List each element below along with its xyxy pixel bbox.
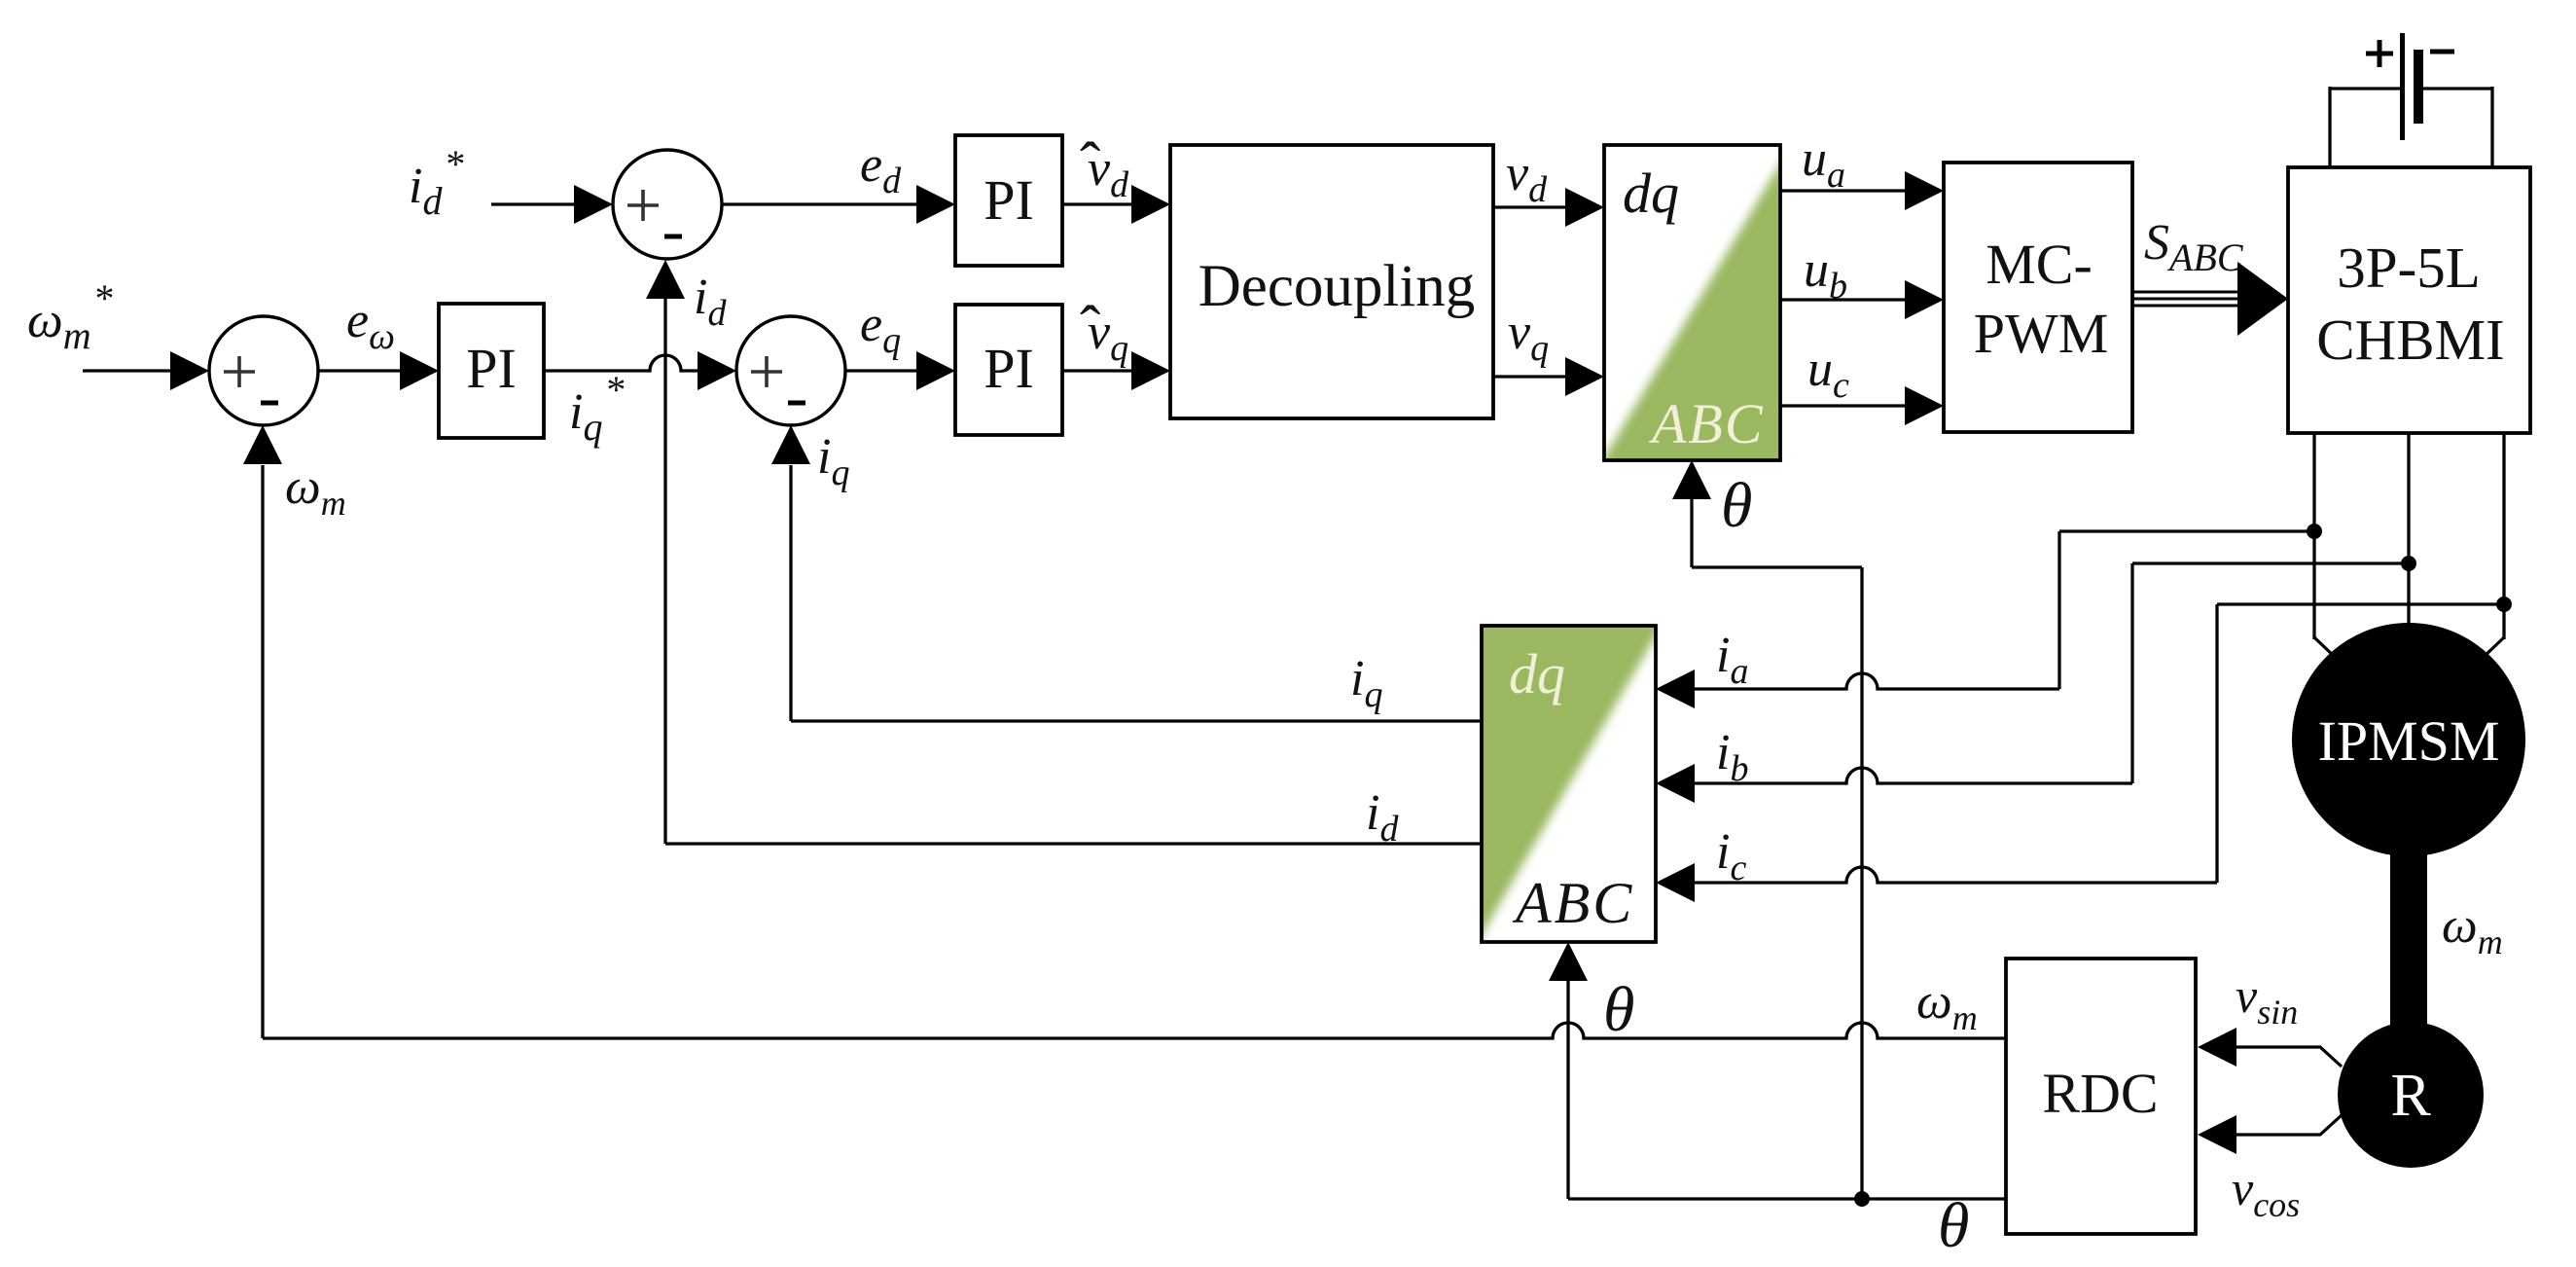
svg-text:PI: PI	[984, 168, 1034, 232]
wire i_d feedback vertical	[663, 299, 666, 844]
tap wire i_c vertical	[2215, 604, 2218, 883]
junction dot phase c tap	[2496, 597, 2512, 612]
arrowhead i_c	[1656, 863, 1695, 902]
svg-text:dq: dq	[1509, 642, 1565, 706]
svg-text:PWM: PWM	[1974, 302, 2109, 365]
svg-text:dq: dq	[1623, 162, 1679, 225]
wire i_q feedback vertical	[789, 465, 792, 721]
wire v_cos	[2236, 1115, 2342, 1135]
arrowhead v_d_hat	[1131, 185, 1170, 224]
svg-text:θ: θ	[1721, 470, 1752, 541]
phase line c vertical	[2502, 433, 2505, 639]
theta arrow into block 1	[1690, 499, 1693, 567]
arrowhead i_d* input	[574, 185, 613, 224]
wire v_q_hat	[1062, 369, 1133, 372]
summing junction speed error	[209, 316, 318, 425]
wire i_d feedback horizontal	[665, 842, 1482, 845]
green triangle dq/ABC block 2	[1472, 621, 1664, 952]
arrowhead u_c	[1905, 386, 1944, 425]
arrowhead e_q	[916, 351, 955, 390]
battery minus sign	[2430, 50, 2454, 54]
motor IPMSM	[2292, 623, 2525, 856]
tap wire i_a horizontal	[2059, 529, 2314, 532]
junction dot theta	[1854, 1191, 1870, 1207]
arrowhead v_sin	[2198, 1028, 2236, 1067]
phase line a vertical	[2312, 433, 2315, 639]
arrowhead i_q into q summing junction	[771, 425, 810, 464]
wire e_q	[845, 369, 918, 372]
svg-text:PI: PI	[984, 337, 1034, 400]
svg-text:3P-5L: 3P-5L	[2337, 235, 2481, 300]
block RDC	[2006, 959, 2196, 1234]
battery wire right	[2423, 87, 2492, 90]
tap wire i_b vertical	[2130, 563, 2133, 783]
wire i_c	[1695, 867, 2217, 883]
wire i_q feedback horizontal	[791, 719, 1482, 722]
svg-text:CHBMI: CHBMI	[2316, 308, 2504, 372]
arrowhead v_cos	[2198, 1115, 2236, 1154]
wire v_d	[1493, 205, 1567, 208]
arrowhead u_b	[1905, 280, 1944, 319]
wire i_q* with hop over i_d feedback	[544, 355, 698, 371]
arrowhead e_omega	[400, 351, 439, 390]
phase line b vertical	[2407, 433, 2410, 633]
block PI d-axis current controller	[955, 135, 1062, 266]
S_ABC triple line bus	[2132, 291, 2237, 294]
arrowhead v_d	[1565, 188, 1604, 227]
svg-text:ABC: ABC	[1648, 392, 1765, 455]
svg-text:PI: PI	[466, 337, 517, 400]
tap wire i_c horizontal	[2217, 602, 2504, 605]
block 3P-5L CHBMI	[2288, 167, 2530, 433]
svg-text:RDC: RDC	[2042, 1062, 2158, 1125]
wire e_omega	[318, 369, 402, 372]
block ABC to dq current transform	[1482, 626, 1656, 942]
phase line c slant into motor	[2483, 637, 2504, 658]
wire e_d	[722, 202, 918, 205]
resolver R	[2338, 1022, 2484, 1168]
svg-text:IPMSM: IPMSM	[2318, 709, 2500, 773]
svg-text:ABC: ABC	[1512, 871, 1634, 935]
battery riser left	[2328, 87, 2331, 167]
wire v_d_hat	[1062, 202, 1133, 205]
wire omega_m feedback horizontal	[263, 1023, 2006, 1038]
arrowhead i_a	[1656, 670, 1695, 708]
theta jog	[1692, 565, 1862, 568]
wire omega_m* input	[83, 369, 172, 372]
wire i_d* input	[491, 202, 576, 205]
arrowhead i_d into d summing junction	[646, 260, 685, 299]
block dq to ABC voltage transform	[1604, 145, 1780, 460]
svg-text:MC-: MC-	[1986, 233, 2093, 296]
arrowhead S_ABC bus	[2237, 262, 2288, 336]
battery negative plate (short thick)	[2414, 50, 2423, 124]
svg-text:θ: θ	[1938, 1190, 1969, 1261]
svg-text:Decoupling: Decoupling	[1199, 254, 1476, 319]
shaft	[2390, 847, 2427, 1027]
wire v_q	[1493, 375, 1567, 378]
arrowhead e_d	[916, 185, 955, 224]
theta riser	[1860, 567, 1863, 1199]
battery plus sign	[2366, 40, 2393, 67]
tap wire i_a vertical	[2057, 531, 2060, 689]
wire omega_m feedback vertical	[261, 465, 264, 1038]
green triangle dq/ABC block 1	[1597, 154, 1786, 469]
arrowhead u_a	[1905, 171, 1944, 210]
summing junction d current error	[613, 150, 722, 259]
block Decoupling	[1170, 145, 1493, 418]
block PI speed controller	[439, 304, 544, 438]
wire v_sin	[2236, 1047, 2342, 1067]
arrowhead v_q	[1565, 357, 1604, 396]
svg-text:R: R	[2390, 1063, 2431, 1129]
block MC-PWM	[1944, 163, 2132, 432]
tap wire i_b horizontal	[2132, 561, 2409, 564]
wire i_a	[1695, 673, 2059, 689]
wire i_b	[1695, 768, 2132, 783]
junction dot phase a tap	[2307, 524, 2322, 539]
wire u_c	[1780, 404, 1907, 407]
svg-text:ˆ: ˆ	[1080, 129, 1100, 199]
arrowhead i_b	[1656, 764, 1695, 803]
junction dot phase b tap	[2401, 556, 2416, 571]
wire u_b	[1780, 298, 1907, 301]
arrowhead omega_m into speed summing junction	[243, 425, 282, 464]
wire theta from RDC	[1568, 1197, 2006, 1200]
svg-text:θ: θ	[1603, 974, 1634, 1045]
battery positive plate (long)	[2400, 33, 2405, 140]
arrowhead i_q* into q summing junction	[698, 351, 736, 390]
phase line a slant into motor	[2314, 637, 2336, 658]
arrowhead v_q_hat	[1131, 351, 1170, 390]
arrowhead omega_m* input	[170, 351, 209, 390]
theta arrow into block 2	[1566, 981, 1569, 1199]
battery riser right	[2490, 87, 2493, 167]
wire u_a	[1780, 189, 1907, 192]
battery wire left	[2330, 87, 2400, 90]
svg-text:ˆ: ˆ	[1080, 293, 1100, 362]
block PI q-axis current controller	[955, 305, 1062, 435]
summing junction q current error	[736, 316, 845, 425]
